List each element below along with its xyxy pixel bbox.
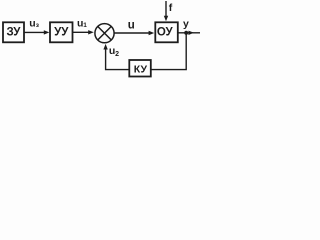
svg-text:ЗУ: ЗУ [7,27,22,39]
svg-text:КУ: КУ [134,63,148,75]
svg-text:УУ: УУ [54,27,69,39]
svg-text:y: y [183,18,189,30]
svg-text:2: 2 [115,51,119,58]
svg-text:u: u [29,18,35,30]
svg-text:u: u [128,19,135,31]
svg-text:f: f [169,2,173,14]
svg-text:1: 1 [83,22,87,29]
svg-text:ОУ: ОУ [157,27,174,39]
